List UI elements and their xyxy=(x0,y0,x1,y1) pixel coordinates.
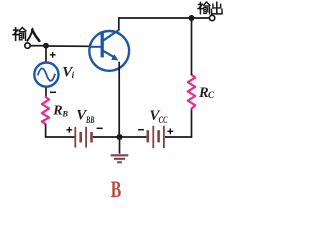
minus sign at VBB right xyxy=(97,127,103,129)
svg-text:B: B xyxy=(61,109,68,119)
minus sign at VCC left xyxy=(138,129,144,131)
label VCC xyxy=(149,108,168,125)
wire node A down to Vi xyxy=(45,46,47,63)
top rail wire: collector bend to output terminal xyxy=(119,18,209,31)
svg-text:CC: CC xyxy=(159,115,169,125)
svg-text:B: B xyxy=(111,177,122,202)
node B junction dot xyxy=(189,15,195,21)
node E junction dot xyxy=(117,134,123,140)
label RB xyxy=(52,103,68,118)
battery VBB xyxy=(75,127,91,148)
svg-text:C: C xyxy=(208,90,215,100)
transistor Q1 (NPN) xyxy=(89,30,129,71)
wire RB down and right to VBB xyxy=(46,124,75,137)
wire VBB to node E (bottom junction) xyxy=(93,136,146,138)
svg-text:R: R xyxy=(52,103,62,118)
svg-text:i: i xyxy=(72,70,75,80)
plus sign at VCC right xyxy=(167,128,173,134)
wire Vi to RB xyxy=(45,88,47,97)
wire VCC right to RC branch corner xyxy=(165,109,192,137)
label 输入 (input) xyxy=(13,28,39,41)
minus sign at Vi bottom xyxy=(50,91,56,93)
plus sign at VBB left xyxy=(66,127,72,133)
output terminal xyxy=(209,15,214,20)
resistor RB xyxy=(42,97,49,124)
wire input terminal to node A xyxy=(31,45,46,47)
label VBB xyxy=(76,108,94,126)
input terminal xyxy=(25,43,30,48)
label Vi xyxy=(62,64,74,80)
wire node A to transistor base xyxy=(46,45,89,47)
ground xyxy=(111,137,129,162)
emitter wire down to node E xyxy=(118,62,120,137)
plus sign at Vi top xyxy=(50,52,56,58)
label 输出 (output) xyxy=(198,2,222,14)
label RC xyxy=(198,85,215,101)
resistor RC xyxy=(188,75,195,109)
wire RC top up to node B (top junction) xyxy=(191,18,193,75)
svg-text:BB: BB xyxy=(85,115,94,125)
node A junction dot xyxy=(43,43,49,49)
battery VCC xyxy=(148,126,164,148)
AC source Vi xyxy=(34,63,58,87)
